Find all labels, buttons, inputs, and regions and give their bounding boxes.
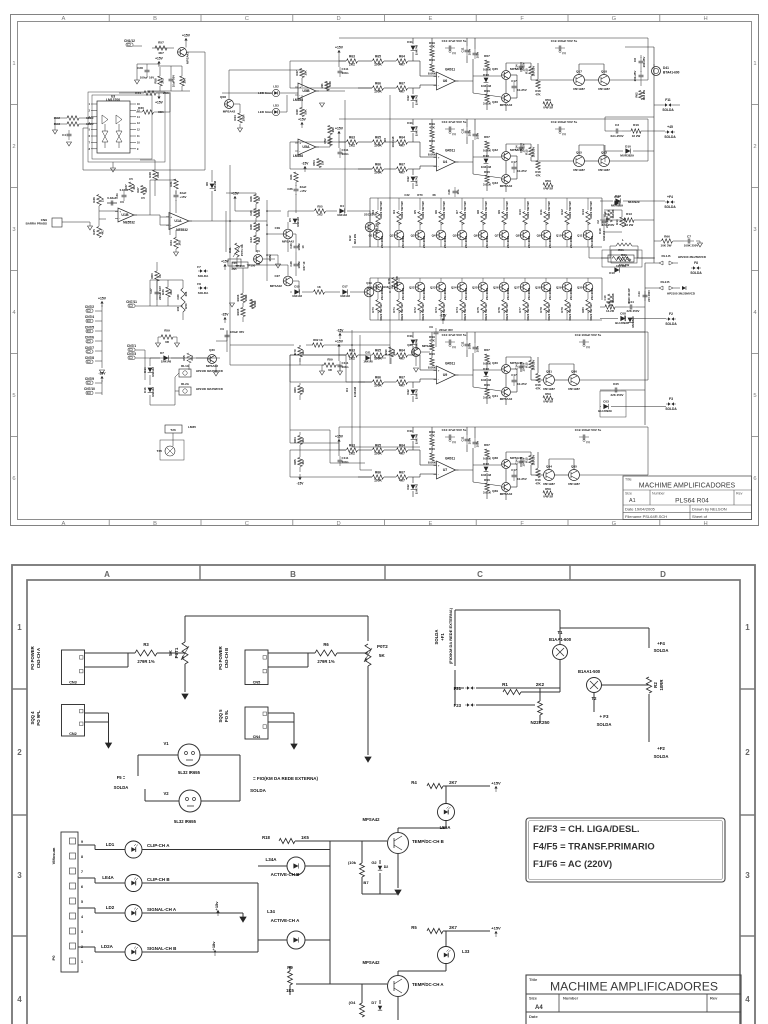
svg-text:1: 1	[745, 623, 750, 632]
svg-text:PO 9PL: PO 9PL	[36, 710, 41, 726]
svg-text:R78: R78	[539, 307, 543, 313]
svg-text:0R22 5W 5W: 0R22 5W 5W	[421, 201, 425, 219]
svg-text:F: F	[520, 521, 524, 527]
svg-text:4K7: 4K7	[399, 452, 405, 456]
diode D14 1N4148	[143, 367, 155, 377]
resistor R52 10K	[323, 137, 332, 146]
wire	[521, 688, 560, 722]
svg-text:C10 47uF 50V 5s: C10 47uF 50V 5s	[442, 333, 467, 337]
svg-text:0R22 5W 5W: 0R22 5W 5W	[463, 201, 467, 219]
svg-text:100n: 100n	[476, 441, 480, 448]
diode D12 1N4742 (U4)	[406, 176, 419, 187]
resistor R63 2K2 (U4)	[347, 136, 358, 148]
svg-text:3: 3	[753, 227, 756, 233]
wire	[150, 330, 227, 405]
svg-text:R72: R72	[413, 307, 417, 313]
transistor Q19 23A1943	[364, 281, 388, 297]
resistor R18 47K (U9)	[535, 374, 541, 391]
svg-text:47K: 47K	[429, 45, 435, 49]
capacitor C14 10-25V (U4)	[515, 143, 526, 153]
bottom sheet row labels	[17, 623, 750, 1004]
svg-text:0R22 5W 5W: 0R22 5W 5W	[526, 201, 530, 219]
resistor R13 1R 2W	[615, 217, 627, 227]
svg-text:D17: D17	[342, 285, 348, 289]
svg-text:D11: D11	[407, 40, 413, 44]
svg-text:2K2: 2K2	[317, 213, 323, 217]
svg-text:U6: U6	[443, 79, 448, 83]
svg-text:3: 3	[745, 871, 750, 880]
svg-text:E: E	[428, 16, 432, 22]
svg-text:Q11: Q11	[577, 234, 583, 238]
svg-text:1N4748: 1N4748	[415, 434, 419, 445]
capacitor C10 47uF 50V (U7)	[442, 428, 467, 444]
svg-text:-: -	[438, 473, 439, 477]
LED LD2	[106, 905, 177, 922]
wire	[62, 221, 90, 223]
resistor R85 4K7	[293, 458, 305, 467]
svg-text:R16: R16	[633, 123, 639, 127]
wire	[157, 262, 364, 322]
svg-text:R47: R47	[295, 70, 299, 76]
wire	[440, 198, 442, 247]
svg-text:5L32 IR655: 5L32 IR655	[174, 819, 197, 824]
transistor Q3 2SC2898 (array A)	[411, 230, 427, 248]
wire	[654, 240, 684, 242]
svg-text:R9: R9	[497, 210, 501, 214]
svg-text:0R22 5W 5W: 0R22 5W 5W	[568, 201, 572, 219]
svg-text:100n: 100n	[342, 71, 349, 75]
svg-text:10uF 50V: 10uF 50V	[172, 75, 176, 87]
resistor R59 049-39 (U4)	[543, 179, 553, 191]
svg-text:Q10: Q10	[556, 234, 562, 238]
wire	[95, 305, 102, 368]
svg-text:LM13700: LM13700	[106, 98, 120, 102]
svg-text:R18: R18	[262, 835, 270, 840]
capacitor C10 47uF 50V (U9)	[442, 333, 467, 349]
svg-text:100M: 100M	[257, 209, 261, 217]
svg-text:F11: F11	[665, 98, 671, 102]
power +15V	[155, 57, 163, 68]
svg-text:SOLDA: SOLDA	[690, 271, 702, 275]
resistor R105 1K	[236, 308, 245, 317]
wire	[258, 866, 330, 984]
svg-text:Q26: Q26	[493, 286, 499, 290]
wire	[83, 92, 205, 235]
resistor R62 3K3 2W	[635, 90, 647, 100]
svg-text:8.06K: 8.06K	[428, 461, 437, 465]
wire	[230, 100, 345, 264]
connector CN3	[62, 650, 85, 685]
resistor R5 0R22 5W (array A)	[413, 201, 425, 224]
wire	[150, 280, 183, 320]
svg-text:2K2: 2K2	[349, 452, 355, 456]
svg-text:-15V: -15V	[98, 372, 106, 376]
svg-text:D11: D11	[407, 429, 413, 433]
diode D13 1N4148 (U6)	[481, 73, 492, 88]
svg-text:1N4148: 1N4148	[340, 294, 350, 298]
op-amp U5B LM358	[293, 83, 319, 102]
svg-text:47K: 47K	[535, 387, 541, 391]
svg-text:2K2: 2K2	[392, 349, 396, 355]
svg-text:LD1: LD1	[106, 842, 115, 847]
wire	[367, 666, 369, 755]
resistor R18 1K5	[262, 835, 309, 844]
wire	[605, 145, 654, 162]
ground	[174, 249, 179, 256]
svg-text:R67: R67	[399, 376, 405, 380]
capacitor C12 100n (U6)	[473, 49, 480, 59]
top sheet row labels 1-6	[12, 61, 757, 482]
capacitor C14 10-25V (U6)	[515, 62, 526, 72]
text PO POWER CN3-CH A	[30, 646, 41, 669]
resistor R64 4K7 (U4)	[397, 136, 408, 148]
diode D11 1N4748 (U7)	[407, 429, 418, 444]
diode D13 MUR829	[611, 194, 623, 208]
capacitor C111 100n (U7)	[338, 456, 349, 466]
svg-text:10K: 10K	[304, 69, 308, 75]
connector CN7 stack	[85, 305, 94, 363]
connector CN9 BARRA PRADS	[26, 218, 62, 227]
svg-text:1K: 1K	[317, 285, 322, 289]
wire	[521, 143, 648, 161]
svg-text:R65: R65	[375, 55, 381, 59]
wire	[362, 984, 380, 1004]
svg-text:R67: R67	[399, 82, 405, 86]
box T35 2N5	[228, 259, 241, 271]
ground	[320, 103, 325, 107]
wire	[398, 786, 490, 888]
svg-text:MACHIME AMPLIFICADORES: MACHIME AMPLIFICADORES	[550, 980, 718, 994]
svg-text:R65: R65	[375, 136, 381, 140]
wire	[521, 452, 648, 475]
svg-text:2K7: 2K7	[449, 780, 457, 785]
wire - channel3 lead	[290, 355, 365, 382]
svg-text:RL1.B: RL1.B	[661, 254, 671, 258]
power -15V	[440, 314, 448, 325]
resistor R69 47K (U6)	[429, 41, 435, 57]
svg-text:U5A: U5A	[302, 145, 310, 149]
svg-text:049-39: 049-39	[543, 187, 553, 191]
svg-text:10-25V: 10-25V	[522, 143, 526, 152]
svg-text:CN7/10: CN7/10	[84, 387, 95, 391]
svg-text:0.33uF: 0.33uF	[120, 188, 129, 192]
svg-text:D13: D13	[483, 462, 489, 466]
transistor Q35 BF1987	[568, 465, 580, 487]
ground	[230, 303, 235, 307]
resistor R 100-25V (U7)	[525, 455, 536, 466]
svg-text:+18v: +18v	[211, 941, 216, 951]
wire	[419, 278, 421, 320]
svg-text:7: 7	[81, 870, 83, 874]
svg-text:10-25V: 10-25V	[517, 169, 527, 173]
svg-text:V1: V1	[163, 741, 169, 746]
transistor Q38 MPSA43	[492, 456, 523, 469]
resistor R18 47K (U6)	[535, 80, 541, 97]
svg-text:RL2.B: RL2.B	[660, 280, 670, 284]
resistor R64 4K7 (U9)	[397, 349, 408, 361]
resistor R27 4K7	[136, 186, 148, 201]
wire	[645, 262, 655, 425]
svg-text:SOLDA: SOLDA	[662, 108, 674, 112]
transistor Q15 BF1987	[573, 151, 585, 173]
svg-text:R28: R28	[249, 196, 253, 202]
transistor Q26 2SC2898 (array B)	[493, 282, 510, 300]
svg-text:100n: 100n	[476, 133, 480, 140]
transistor Q43 MPSA42	[492, 175, 512, 189]
trimpot P6T1 5K	[168, 642, 189, 664]
svg-text:D: D	[660, 570, 666, 579]
resistor R40 1K2	[249, 236, 261, 245]
resistor R61 1K	[314, 285, 325, 294]
svg-text:R61: R61	[621, 253, 627, 257]
svg-text:0R22 5W 5W: 0R22 5W 5W	[484, 201, 488, 219]
svg-text:1N4148: 1N4148	[161, 360, 172, 364]
resistor R64 4K7 (U7)	[397, 444, 408, 456]
svg-text:R27: R27	[136, 187, 140, 193]
svg-text:05F1987: 05F1987	[568, 387, 580, 391]
capacitor C17 10-25V (U7)	[511, 468, 527, 481]
svg-text:C27: C27	[274, 274, 280, 278]
svg-text:47K: 47K	[429, 434, 435, 438]
svg-text:B: B	[290, 570, 296, 579]
capacitor C17 10-25V (U6)	[511, 79, 527, 92]
svg-text:R37 10: R37 10	[302, 261, 306, 270]
svg-text:Q1: Q1	[369, 234, 373, 238]
svg-text:7: 7	[89, 141, 91, 144]
transistor Q2 2SC2898 (array A)	[390, 230, 406, 248]
resistor R13 18 2W	[624, 212, 634, 227]
solder point F8 SOLDA	[690, 261, 702, 275]
svg-text:D12: D12	[406, 176, 410, 182]
wire	[604, 210, 622, 232]
resistor R56 2K2	[315, 205, 326, 217]
wire	[566, 198, 568, 247]
svg-text:R82 1K: R82 1K	[313, 338, 322, 342]
ground	[276, 264, 281, 268]
transistor Q MPSA42 (CH B)	[362, 817, 443, 854]
diode D7 1N4148	[160, 351, 171, 364]
capacitor C19 100uF 50V (U9)	[575, 333, 602, 349]
bottom sheet column tick marks	[200, 565, 570, 580]
svg-text:R4: R4	[392, 210, 396, 214]
connector P0 strip	[51, 832, 78, 972]
diode D12 1N4742 (U6)	[406, 95, 419, 106]
svg-text:R2: R2	[653, 682, 658, 688]
capacitor C23 100M	[289, 242, 305, 252]
svg-text:ACTIVE-CH B: ACTIVE-CH B	[271, 872, 301, 877]
resistor R63 2K2 (U6)	[347, 55, 358, 67]
capacitor C34 0.33uF	[115, 188, 129, 201]
wire	[545, 278, 547, 320]
svg-text:C10 47uF 50V 5s: C10 47uF 50V 5s	[442, 120, 467, 124]
resistor R51 10K	[328, 126, 335, 135]
svg-text:TEMP/DC-CH A: TEMP/DC-CH A	[412, 982, 444, 987]
svg-text:1N4148: 1N4148	[481, 378, 492, 382]
svg-text:3.61K: 3.61K	[483, 102, 492, 106]
solder point F7 SOLDA	[197, 265, 209, 278]
diode D6 1N4148	[205, 181, 217, 192]
svg-text:D41: D41	[663, 66, 669, 70]
svg-text:TEMP/DC-CH B: TEMP/DC-CH B	[412, 839, 444, 844]
transistor Q25 2SC2898 (array B)	[472, 282, 489, 300]
transistor Q45 MPSA43	[492, 67, 523, 80]
svg-text:CN1/12: CN1/12	[124, 39, 135, 43]
LED LD2A	[101, 944, 177, 961]
capacitor C14 10-25V (U9)	[515, 362, 526, 372]
transistor Q10 2SC2366	[364, 213, 379, 234]
svg-text:10RR: 10RR	[659, 680, 664, 691]
svg-text:D13: D13	[615, 194, 621, 198]
power +15V	[335, 435, 346, 457]
svg-text:C10 47uF 50V 5s: C10 47uF 50V 5s	[442, 39, 467, 43]
wire	[600, 200, 665, 202]
svg-text:12: 12	[137, 129, 140, 132]
wire - feeder node column	[266, 200, 272, 281]
svg-text:0.86K: 0.86K	[483, 362, 492, 366]
svg-text:11: 11	[137, 135, 140, 138]
svg-text:HP2100 3M.25MVCD: HP2100 3M.25MVCD	[678, 255, 706, 259]
svg-text:SQQ 4: SQQ 4	[30, 711, 35, 725]
svg-text:4K7: 4K7	[301, 437, 305, 443]
svg-text:Q8: Q8	[516, 234, 520, 238]
wire	[322, 365, 340, 371]
svg-text:05F1987: 05F1987	[598, 168, 610, 172]
transistor T35	[157, 446, 175, 456]
svg-text:10K 3W: 10K 3W	[661, 244, 672, 248]
ground	[214, 364, 219, 376]
svg-text:1N4148: 1N4148	[151, 387, 155, 397]
resistor R9 0R22 5W (array A)	[497, 201, 509, 224]
info box F2/F3 legend	[526, 818, 725, 882]
svg-text:1K2: 1K2	[257, 237, 261, 243]
svg-text:C2: C2	[596, 220, 600, 224]
diode D2	[378, 865, 388, 870]
svg-text:D4: D4	[340, 204, 344, 208]
svg-text:2K2: 2K2	[349, 144, 355, 148]
power +15V	[231, 192, 239, 203]
svg-text:0R22 5W 5W: 0R22 5W 5W	[589, 303, 593, 321]
ground	[67, 142, 72, 146]
svg-text:1: 1	[12, 61, 15, 67]
svg-text:4: 4	[81, 915, 83, 919]
svg-text:R54: R54	[312, 160, 316, 166]
svg-text:+15V: +15V	[335, 340, 344, 344]
svg-text:47K: 47K	[429, 339, 435, 343]
wire	[137, 64, 159, 80]
svg-text:SOLDA: SOLDA	[664, 205, 676, 209]
svg-text:D6: D6	[205, 182, 209, 186]
op-amp U5A LM358	[293, 139, 319, 158]
svg-text:R85: R85	[293, 459, 297, 465]
resistor R104 100R	[250, 300, 257, 309]
svg-text:+15V: +15V	[491, 781, 501, 786]
transistor Q27 2SC2898 (array B)	[514, 282, 531, 300]
svg-text:CN3: CN3	[69, 680, 77, 684]
svg-text:+15V: +15V	[221, 260, 229, 264]
svg-text:10-25V: 10-25V	[522, 457, 526, 466]
svg-text:1N4748: 1N4748	[415, 126, 419, 137]
svg-text:C14: C14	[515, 145, 519, 151]
resistor R18 47K (U7)	[535, 469, 541, 486]
svg-text:SOLDA: SOLDA	[654, 648, 669, 653]
svg-text:3: 3	[81, 930, 83, 934]
svg-text:R83: R83	[293, 387, 297, 393]
capacitor C12 100n (U9)	[473, 343, 480, 353]
resistor R80 0R22 5W (array B)	[581, 300, 593, 321]
svg-text:1: 1	[17, 623, 22, 632]
svg-text:0.86K: 0.86K	[483, 68, 492, 72]
svg-text:+F2: +F2	[657, 746, 665, 751]
svg-text:Q9: Q9	[537, 234, 541, 238]
power +15V	[335, 46, 346, 68]
svg-text:2SC2898: 2SC2898	[485, 236, 489, 249]
svg-text:+F4: +F4	[667, 195, 673, 199]
svg-text:D11: D11	[407, 334, 413, 338]
svg-text:LD2: LD2	[273, 85, 279, 89]
svg-text:0R22 5W 5W: 0R22 5W 5W	[568, 303, 572, 321]
svg-text:100 3W: 100 3W	[619, 263, 630, 267]
svg-text:Q41: Q41	[492, 394, 498, 398]
power +F4 SOLDA	[664, 195, 676, 209]
svg-text:GR011: GR011	[445, 362, 455, 366]
svg-text:C2: C2	[605, 212, 609, 216]
wire	[440, 278, 442, 320]
wire	[185, 616, 368, 692]
resistor R66 100K (U4)	[373, 163, 384, 175]
svg-text:R67: R67	[399, 163, 405, 167]
svg-text:R74: R74	[455, 307, 459, 313]
svg-text:V2: V2	[163, 791, 169, 796]
resistor R67b 0.86K (U4)	[483, 135, 492, 153]
wire	[268, 713, 294, 744]
svg-text:Q39: Q39	[492, 489, 498, 493]
svg-text:Q33: Q33	[407, 343, 413, 347]
transistor Q36 MPSA42	[275, 226, 295, 244]
diode D11 1N4748 (U9)	[407, 334, 418, 349]
svg-text:0R22 5W 5W: 0R22 5W 5W	[400, 303, 404, 321]
svg-text:U5B: U5B	[302, 89, 310, 93]
svg-text:+: +	[299, 141, 301, 145]
ground	[182, 694, 188, 699]
transistor Q41 MPSA42	[492, 388, 512, 402]
svg-text:SIGNAL-CH A: SIGNAL-CH A	[147, 907, 177, 912]
svg-text:5L32 IR655: 5L32 IR655	[178, 770, 201, 775]
wire	[135, 306, 220, 380]
power +15V	[298, 118, 306, 129]
transistor Q MPSA42 (CH A)	[362, 960, 444, 997]
svg-text:D12: D12	[406, 484, 410, 490]
svg-text:CN7/1: CN7/1	[127, 344, 136, 348]
power +15V	[221, 260, 229, 271]
svg-text:Size: Size	[529, 996, 538, 1001]
capacitor C26 cluster	[447, 187, 460, 197]
power +15V	[155, 93, 163, 105]
capacitor C1 10uF 50V	[169, 75, 176, 87]
power +15V	[214, 901, 220, 916]
svg-text:R63: R63	[150, 273, 154, 279]
svg-text:LED 3mm: LED 3mm	[258, 110, 272, 114]
transistor Q17 BF1987	[573, 70, 585, 92]
wire	[352, 360, 420, 470]
svg-text:+: +	[438, 75, 440, 79]
svg-text:+: +	[170, 215, 172, 219]
svg-text:2SC2898: 2SC2898	[506, 288, 510, 301]
svg-text:50K: 50K	[304, 108, 308, 114]
svg-text:(1): (1)	[452, 132, 455, 136]
svg-text:10-25V: 10-25V	[522, 362, 526, 371]
svg-text:B7: B7	[363, 880, 369, 885]
resistor R64 4K7 (U6)	[397, 55, 408, 67]
